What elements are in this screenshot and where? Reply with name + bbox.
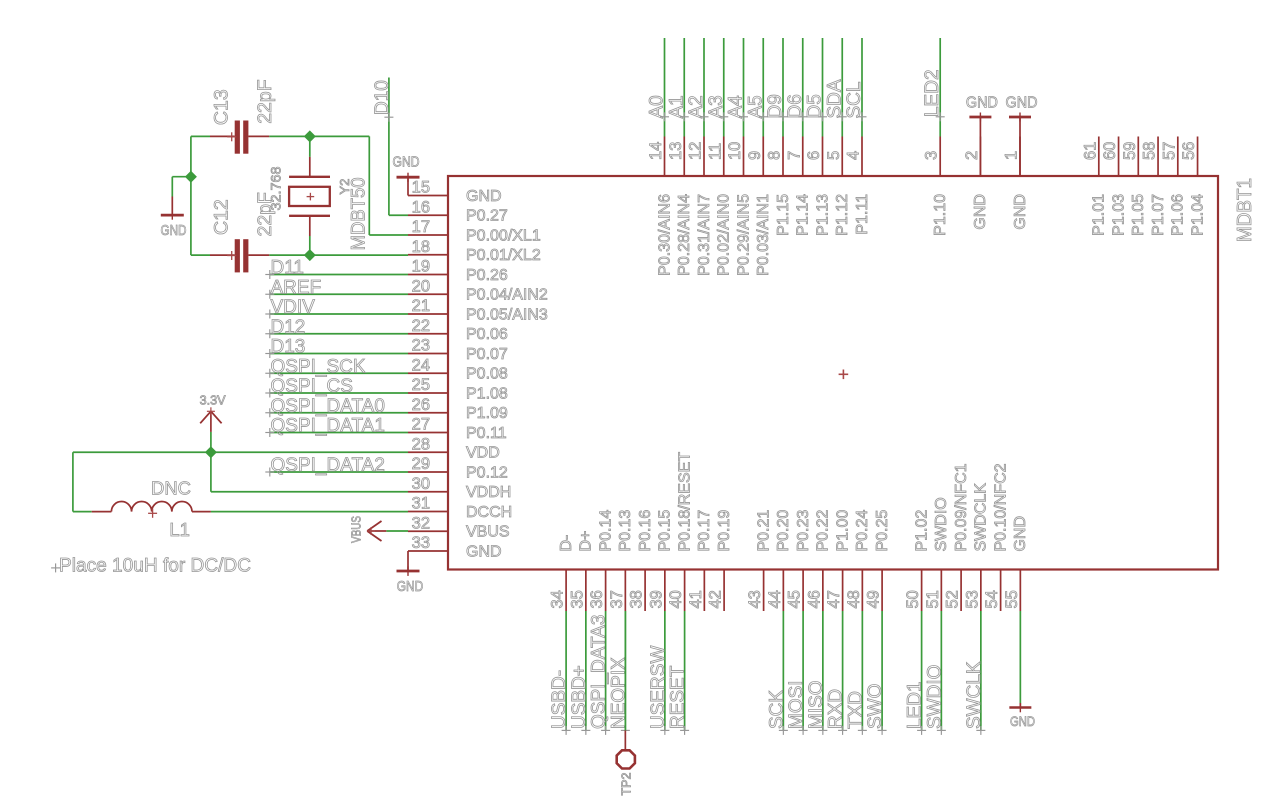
wire net SCL (pin 4) bbox=[861, 38, 863, 137]
svg-text:38: 38 bbox=[628, 590, 646, 608]
pin 37 stub (P0.13) bbox=[624, 570, 626, 612]
svg-text:MDBT1: MDBT1 bbox=[1234, 178, 1256, 242]
net label SWDIO bbox=[924, 665, 946, 735]
pin 25 name P1.08 bbox=[466, 385, 508, 402]
net label D9 bbox=[765, 94, 788, 121]
svg-text:32: 32 bbox=[412, 514, 430, 532]
pin 18 number bbox=[412, 238, 430, 256]
pin 58 name P1.07 bbox=[1150, 194, 1167, 236]
pin 8 number bbox=[766, 151, 784, 160]
svg-text:P0.12: P0.12 bbox=[466, 464, 508, 481]
pin 2 stub (GND) bbox=[979, 137, 981, 177]
svg-text:VBUS: VBUS bbox=[349, 516, 364, 543]
pin 18 stub (P0.01/XL2) bbox=[408, 254, 448, 256]
supply symbol 3.3V bbox=[200, 392, 226, 452]
pin 57 number bbox=[1160, 142, 1178, 160]
pin 15 stub (GND) bbox=[408, 195, 448, 197]
net label RESET bbox=[668, 665, 690, 735]
pin 52 number bbox=[944, 590, 962, 608]
svg-text:16: 16 bbox=[412, 198, 430, 216]
pin 24 name P0.08 bbox=[466, 366, 508, 383]
pin 18 name P0.01/XL2 bbox=[466, 247, 541, 264]
pin 49 name P0.25 bbox=[874, 510, 891, 552]
wire net D13 (pin 23) bbox=[270, 353, 408, 355]
wire net QSPI_CS (pin 25) bbox=[270, 392, 408, 394]
pin 34 name D- bbox=[558, 535, 575, 552]
pin 1 number bbox=[1003, 151, 1021, 160]
pin 9 stub (P0.03/AIN1) bbox=[762, 137, 764, 177]
pin 55 stub (GND) bbox=[1019, 570, 1021, 612]
svg-text:GND: GND bbox=[397, 579, 424, 595]
capacitor C13 bbox=[210, 121, 269, 154]
svg-text:41: 41 bbox=[687, 590, 705, 608]
svg-text:46: 46 bbox=[805, 590, 823, 608]
svg-text:P0.02/AIN0: P0.02/AIN0 bbox=[716, 194, 733, 276]
pin 47 name P1.00 bbox=[834, 510, 851, 552]
svg-text:P0.23: P0.23 bbox=[795, 510, 812, 552]
pin 38 name P0.16 bbox=[637, 510, 654, 552]
svg-text:33: 33 bbox=[412, 534, 430, 552]
wire net VDD rail bbox=[73, 452, 408, 511]
pin 6 name P1.13 bbox=[814, 194, 831, 236]
pin 27 number bbox=[412, 416, 430, 434]
svg-text:22pF: 22pF bbox=[254, 79, 276, 124]
pin 8 stub (P1.15) bbox=[782, 137, 784, 177]
svg-text:VDD: VDD bbox=[466, 445, 500, 462]
pin 39 number bbox=[647, 590, 665, 608]
svg-text:RESET: RESET bbox=[668, 665, 689, 729]
pin 1 stub (GND) bbox=[1019, 137, 1021, 177]
net label QSPI_DATA3 bbox=[589, 615, 611, 735]
pin 41 stub (P0.17) bbox=[703, 570, 705, 612]
svg-text:P1.14: P1.14 bbox=[795, 194, 812, 236]
wire net MOSI (pin 45) bbox=[802, 611, 804, 730]
pin 41 number bbox=[687, 590, 705, 608]
pin 59 number bbox=[1121, 142, 1139, 160]
svg-text:60: 60 bbox=[1101, 142, 1119, 160]
pin 54 name P0.10/NFC2 bbox=[992, 463, 1009, 551]
pin 50 number bbox=[904, 590, 922, 608]
pin 5 name P1.12 bbox=[834, 194, 851, 236]
svg-text:39: 39 bbox=[647, 590, 665, 608]
pin 17 stub (P0.00/XL1) bbox=[408, 234, 448, 236]
svg-text:P1.11: P1.11 bbox=[854, 194, 871, 235]
svg-text:MDBT50: MDBT50 bbox=[348, 177, 370, 250]
wire net NEOPIX (pin 37) bbox=[624, 611, 626, 730]
net label RXD bbox=[826, 689, 848, 735]
net label A0 bbox=[647, 95, 670, 121]
net label A2 bbox=[686, 95, 709, 121]
pin 10 stub (P0.29/AIN5) bbox=[743, 137, 745, 177]
net label D5 bbox=[805, 94, 828, 121]
svg-text:40: 40 bbox=[667, 590, 685, 608]
wire net D6 (pin 7) bbox=[802, 38, 804, 137]
svg-text:P1.00: P1.00 bbox=[834, 510, 851, 552]
svg-text:QSPI_SCK: QSPI_SCK bbox=[271, 356, 366, 377]
label Y2 bbox=[337, 179, 352, 195]
svg-text:MOSI: MOSI bbox=[786, 680, 807, 729]
ground symbol GND (crystal) bbox=[161, 197, 187, 240]
net label VDIV bbox=[265, 297, 315, 319]
wire net D5 (pin 6) bbox=[822, 38, 824, 137]
svg-text:P0.01/XL2: P0.01/XL2 bbox=[466, 247, 541, 264]
pin 36 stub (P0.14) bbox=[605, 570, 607, 612]
pin 26 number bbox=[412, 396, 430, 414]
pin 43 stub (P0.21) bbox=[763, 570, 765, 612]
pin 30 number bbox=[412, 475, 430, 493]
value 22pF (C13) bbox=[254, 79, 276, 124]
svg-text:LED2: LED2 bbox=[922, 69, 943, 117]
wire net A2 (pin 12) bbox=[703, 38, 705, 137]
svg-text:RXD: RXD bbox=[826, 689, 847, 729]
wire net QSPI_SCK (pin 24) bbox=[270, 372, 408, 374]
svg-text:17: 17 bbox=[412, 218, 430, 236]
svg-text:DCCH: DCCH bbox=[466, 504, 512, 521]
pin 14 number bbox=[647, 142, 665, 160]
ground symbol GND (pin 15) bbox=[393, 155, 420, 196]
pin 7 number bbox=[785, 151, 803, 160]
wire crystal bottom net (XL2) bbox=[191, 136, 408, 255]
wire net SWCLK (pin 53) bbox=[980, 611, 982, 730]
wire net QSPI_DATA1 (pin 27) bbox=[270, 432, 408, 434]
svg-text:11: 11 bbox=[706, 143, 724, 160]
pin 45 name P0.23 bbox=[795, 510, 812, 552]
pin 59 name P1.05 bbox=[1130, 194, 1147, 236]
svg-text:GND: GND bbox=[1010, 713, 1035, 729]
pin 59 stub (P1.05) bbox=[1137, 137, 1139, 177]
pin 29 name P0.12 bbox=[466, 464, 508, 481]
wire net SWO (pin 49) bbox=[881, 611, 883, 730]
wire net D11 (pin 19) bbox=[270, 274, 408, 276]
svg-text:4: 4 bbox=[845, 151, 863, 160]
pin 11 number bbox=[706, 143, 724, 160]
pin 32 name VBUS bbox=[466, 524, 510, 541]
label C13 bbox=[211, 89, 233, 125]
pin 53 number bbox=[963, 590, 981, 608]
net label D10 bbox=[372, 80, 393, 122]
svg-text:P1.13: P1.13 bbox=[814, 194, 831, 236]
pin 51 number bbox=[924, 590, 942, 608]
svg-text:2: 2 bbox=[963, 151, 981, 160]
wire net USBD- (pin 34) bbox=[565, 611, 567, 730]
pin 42 stub (P0.19) bbox=[723, 570, 725, 612]
junction 3.3V tap bbox=[205, 446, 217, 458]
pin 12 number bbox=[687, 142, 705, 160]
svg-text:QSPI_DATA0: QSPI_DATA0 bbox=[271, 396, 385, 417]
pin 52 stub (P0.09/NFC1) bbox=[960, 570, 962, 612]
pin 4 number bbox=[845, 151, 863, 160]
wire net DCCH (pin 31) bbox=[211, 511, 408, 513]
pin 36 name P0.14 bbox=[597, 510, 614, 552]
pin 36 number bbox=[588, 590, 606, 608]
pin 27 stub (P0.11) bbox=[408, 432, 448, 434]
pin 13 stub (P0.28/AIN4) bbox=[683, 137, 685, 177]
pin 30 stub (VDDH) bbox=[408, 491, 448, 493]
net label SCL bbox=[844, 82, 867, 122]
pin 22 name P0.06 bbox=[466, 326, 508, 343]
svg-text:P0.18/RESET: P0.18/RESET bbox=[676, 452, 693, 552]
svg-text:P1.07: P1.07 bbox=[1150, 194, 1167, 236]
svg-text:QSPI_DATA2: QSPI_DATA2 bbox=[271, 455, 385, 476]
wire net TXD (pin 48) bbox=[861, 611, 863, 730]
svg-text:P1.12: P1.12 bbox=[834, 194, 851, 236]
pin 11 name P0.02/AIN0 bbox=[716, 194, 733, 276]
svg-text:30: 30 bbox=[412, 475, 430, 493]
wire net A0 (pin 14) bbox=[664, 38, 666, 137]
svg-text:P1.06: P1.06 bbox=[1170, 194, 1187, 236]
pin 23 name P0.07 bbox=[466, 346, 508, 363]
pin 16 number bbox=[412, 198, 430, 216]
svg-text:QSPI_DATA1: QSPI_DATA1 bbox=[271, 416, 385, 437]
svg-text:P1.05: P1.05 bbox=[1130, 194, 1147, 236]
junction crystal top bbox=[304, 130, 316, 142]
pin 33 number bbox=[412, 534, 430, 552]
svg-text:P0.14: P0.14 bbox=[597, 510, 614, 552]
pin 26 stub (P1.09) bbox=[408, 412, 448, 414]
svg-text:P0.15: P0.15 bbox=[657, 510, 674, 552]
wire net MISO (pin 46) bbox=[822, 611, 824, 730]
wire net LED2 (pin 3) bbox=[939, 38, 941, 137]
pin 35 name D+ bbox=[578, 531, 595, 552]
module name label MDBT1 bbox=[1234, 178, 1256, 242]
svg-text:P0.25: P0.25 bbox=[874, 510, 891, 552]
svg-text:P0.04/AIN2: P0.04/AIN2 bbox=[466, 287, 548, 304]
net label MISO bbox=[806, 680, 828, 734]
pin 44 number bbox=[766, 590, 784, 608]
pin 43 number bbox=[746, 590, 764, 608]
pin 19 name P0.26 bbox=[466, 267, 508, 284]
pin 57 name P1.06 bbox=[1170, 194, 1187, 236]
wire net SCK (pin 44) bbox=[782, 611, 784, 730]
net label QSPI_CS bbox=[265, 376, 353, 398]
pin 4 name P1.11 bbox=[854, 194, 871, 235]
wire net SWDIO (pin 51) bbox=[940, 611, 942, 730]
svg-text:53: 53 bbox=[963, 590, 981, 608]
pin 47 number bbox=[825, 590, 843, 608]
wire net D9 (pin 8) bbox=[782, 38, 784, 137]
pin 48 name P0.24 bbox=[854, 510, 871, 552]
pin 57 stub (P1.06) bbox=[1177, 137, 1179, 177]
pin 1 name GND bbox=[1012, 194, 1029, 230]
svg-text:P0.24: P0.24 bbox=[854, 510, 871, 552]
value DNC (L1) bbox=[151, 478, 191, 499]
svg-text:8: 8 bbox=[766, 151, 784, 160]
wire net LED1 (pin 50) bbox=[921, 611, 923, 730]
pin 33 stub (GND) bbox=[408, 550, 448, 552]
pin 31 stub (DCCH) bbox=[408, 511, 448, 513]
pin 61 name P1.01 bbox=[1091, 194, 1108, 236]
pin 13 name P0.28/AIN4 bbox=[676, 194, 693, 276]
pin 28 stub (VDD) bbox=[408, 451, 448, 453]
svg-text:P0.07: P0.07 bbox=[466, 346, 508, 363]
svg-text:58: 58 bbox=[1141, 142, 1159, 160]
ground symbol GND (top pin) bbox=[1006, 94, 1038, 176]
svg-text:USBD-: USBD- bbox=[549, 670, 570, 729]
svg-text:GND: GND bbox=[972, 194, 989, 230]
label L1 bbox=[169, 519, 190, 540]
note text Place 10uH for DC/DC bbox=[51, 556, 251, 577]
value 22pF (C12) bbox=[254, 192, 276, 237]
wire net D12 (pin 22) bbox=[270, 333, 408, 335]
pin 31 name DCCH bbox=[466, 504, 512, 521]
wire crystal top net (XL1) bbox=[191, 136, 408, 235]
wire net QSPI_DATA0 (pin 26) bbox=[270, 412, 408, 414]
svg-text:32.768: 32.768 bbox=[268, 166, 284, 210]
pin 54 stub (P0.10/NFC2) bbox=[1000, 570, 1002, 612]
svg-text:1: 1 bbox=[1003, 151, 1021, 160]
pin 25 number bbox=[412, 376, 430, 394]
svg-text:13: 13 bbox=[667, 142, 685, 160]
svg-text:P0.29/AIN5: P0.29/AIN5 bbox=[735, 194, 752, 276]
pin 48 number bbox=[845, 590, 863, 608]
pin 38 number bbox=[628, 590, 646, 608]
net label D11 bbox=[265, 258, 304, 280]
svg-text:MISO: MISO bbox=[806, 680, 827, 729]
pin 53 stub (SWDCLK) bbox=[980, 570, 982, 612]
svg-text:24: 24 bbox=[412, 356, 430, 374]
svg-text:P1.10: P1.10 bbox=[932, 194, 949, 236]
pin 54 number bbox=[983, 590, 1001, 608]
svg-text:SWCLK: SWCLK bbox=[964, 661, 985, 729]
pin 28 number bbox=[412, 435, 430, 453]
svg-text:20: 20 bbox=[412, 277, 430, 295]
svg-text:L1: L1 bbox=[169, 519, 190, 540]
net label D12 bbox=[265, 317, 305, 339]
svg-text:12: 12 bbox=[687, 142, 705, 160]
ground symbol GND (pin 33) bbox=[397, 551, 424, 595]
svg-text:D11: D11 bbox=[271, 258, 304, 279]
pin 56 name P1.04 bbox=[1189, 194, 1206, 236]
module origin cross bbox=[839, 370, 849, 380]
pin 3 name P1.10 bbox=[932, 194, 949, 236]
pin 3 stub (P1.10) bbox=[939, 137, 941, 177]
pin 52 name P0.09/NFC1 bbox=[953, 463, 970, 551]
supply symbol VBUS (pin 32) bbox=[349, 516, 409, 543]
pin 34 number bbox=[549, 590, 567, 608]
wire net USBD+ (pin 35) bbox=[585, 611, 587, 730]
svg-text:P1.04: P1.04 bbox=[1189, 194, 1206, 236]
svg-text:SWDIO: SWDIO bbox=[933, 497, 950, 551]
pin 16 name P0.27 bbox=[466, 208, 508, 225]
pin 10 name P0.29/AIN5 bbox=[735, 194, 752, 276]
wire to crystal GND bbox=[172, 177, 191, 197]
pin 8 name P1.15 bbox=[775, 194, 792, 236]
pin 21 stub (P0.05/AIN3) bbox=[408, 313, 448, 315]
svg-text:P1.01: P1.01 bbox=[1091, 194, 1108, 236]
svg-text:GND: GND bbox=[393, 155, 420, 171]
svg-text:21: 21 bbox=[412, 297, 430, 315]
net label AREF bbox=[265, 277, 321, 299]
pin 48 stub (P0.24) bbox=[861, 570, 863, 612]
inductor L1 bbox=[73, 502, 211, 518]
pin 56 number bbox=[1180, 142, 1198, 160]
svg-text:6: 6 bbox=[805, 151, 823, 160]
net label A1 bbox=[666, 95, 689, 121]
svg-text:42: 42 bbox=[707, 590, 725, 608]
pin 42 name P0.19 bbox=[716, 510, 733, 552]
svg-text:28: 28 bbox=[412, 435, 430, 453]
svg-text:23: 23 bbox=[412, 337, 430, 355]
pin 60 number bbox=[1101, 142, 1119, 160]
pin 5 number bbox=[825, 151, 843, 160]
ground symbol GND (pin 55) bbox=[1009, 611, 1035, 729]
svg-text:54: 54 bbox=[983, 590, 1001, 608]
svg-text:D13: D13 bbox=[271, 337, 306, 358]
svg-text:P0.00/XL1: P0.00/XL1 bbox=[466, 227, 541, 244]
pin 15 name GND bbox=[466, 188, 502, 205]
svg-text:31: 31 bbox=[412, 495, 430, 513]
svg-text:SWO: SWO bbox=[865, 684, 886, 729]
pin 45 stub (P0.23) bbox=[802, 570, 804, 612]
net label QSPI_DATA0 bbox=[265, 396, 385, 418]
svg-text:56: 56 bbox=[1180, 142, 1198, 160]
pin 35 stub (D+) bbox=[585, 570, 587, 612]
svg-text:P0.26: P0.26 bbox=[466, 267, 508, 284]
pin 40 number bbox=[667, 590, 685, 608]
net label TXD bbox=[845, 691, 867, 735]
pin 19 stub (P0.26) bbox=[408, 274, 448, 276]
svg-text:P0.30/AIN6: P0.30/AIN6 bbox=[656, 194, 673, 276]
pin 20 name P0.04/AIN2 bbox=[466, 287, 548, 304]
pin 34 stub (D-) bbox=[565, 570, 567, 612]
pin 45 number bbox=[786, 590, 804, 608]
svg-text:USBD+: USBD+ bbox=[569, 665, 590, 729]
svg-text:P0.03/AIN1: P0.03/AIN1 bbox=[755, 194, 772, 276]
pin 25 stub (P1.08) bbox=[408, 392, 448, 394]
pin 4 stub (P1.11) bbox=[861, 137, 863, 177]
pin 55 name GND bbox=[1012, 516, 1029, 552]
svg-text:3.3V: 3.3V bbox=[200, 392, 226, 407]
IC U1 module MDBT1 body outline bbox=[448, 176, 1218, 570]
test point TP2 bbox=[617, 730, 635, 795]
net label USBD+ bbox=[569, 665, 591, 735]
pin 39 name P0.15 bbox=[657, 510, 674, 552]
svg-text:GND: GND bbox=[466, 543, 502, 560]
wire net A3 (pin 11) bbox=[723, 38, 725, 137]
pin 58 stub (P1.07) bbox=[1157, 137, 1159, 177]
svg-text:TXD: TXD bbox=[845, 691, 866, 729]
wire net RESET (pin 40) bbox=[684, 611, 686, 730]
pin 33 name GND bbox=[466, 543, 502, 560]
svg-text:P0.13: P0.13 bbox=[617, 510, 634, 552]
pin 16 stub (P0.27) bbox=[408, 214, 448, 216]
pin 5 stub (P1.12) bbox=[841, 137, 843, 177]
pin 12 name P0.31/AIN7 bbox=[696, 194, 713, 276]
pin 29 number bbox=[412, 455, 430, 473]
net label NEOPIX bbox=[608, 657, 630, 735]
wire net RXD (pin 47) bbox=[842, 611, 844, 730]
net label A4 bbox=[726, 95, 749, 121]
net label SCK bbox=[766, 690, 788, 735]
svg-text:GND: GND bbox=[1012, 194, 1029, 230]
svg-text:P1.15: P1.15 bbox=[775, 194, 792, 236]
pin 3 number bbox=[923, 151, 941, 160]
svg-text:AREF: AREF bbox=[271, 277, 322, 298]
svg-text:P0.11: P0.11 bbox=[466, 425, 507, 442]
pin 46 name P0.22 bbox=[815, 510, 832, 552]
svg-text:27: 27 bbox=[412, 416, 430, 434]
net label D13 bbox=[265, 337, 305, 359]
label C12 bbox=[211, 199, 233, 235]
pin 7 stub (P1.14) bbox=[802, 137, 804, 177]
svg-text:DNC: DNC bbox=[151, 478, 191, 499]
junction crystal bottom bbox=[304, 249, 316, 261]
pin 31 number bbox=[412, 495, 430, 513]
svg-text:P0.05/AIN3: P0.05/AIN3 bbox=[466, 306, 548, 323]
svg-text:VDDH: VDDH bbox=[466, 484, 511, 501]
net label USBD- bbox=[549, 670, 571, 735]
svg-text:GND: GND bbox=[161, 222, 187, 239]
